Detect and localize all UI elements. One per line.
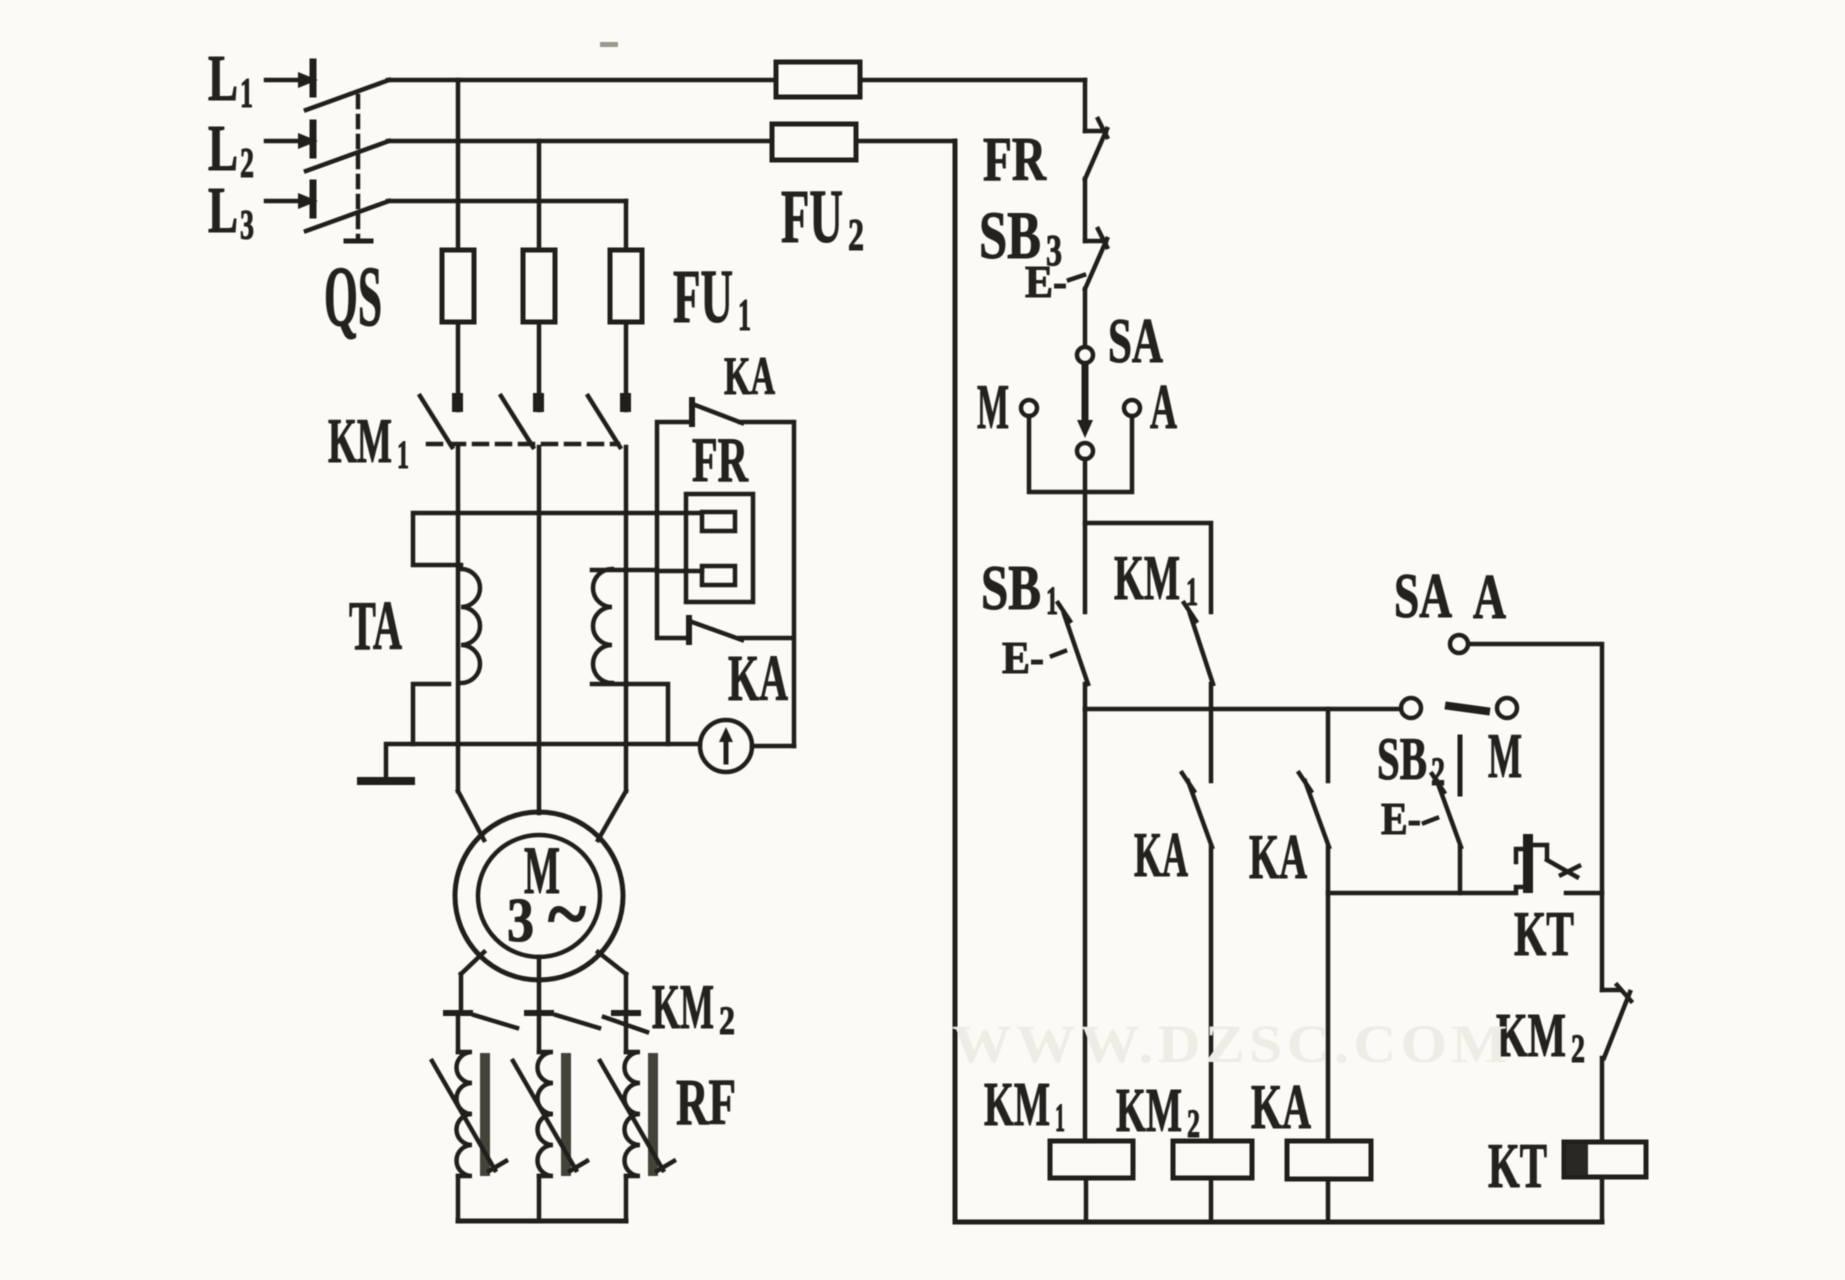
svg-text:2: 2: [1571, 1026, 1585, 1071]
svg-text:TA: TA: [349, 588, 402, 665]
svg-text:KM: KM: [328, 405, 392, 476]
svg-text:FR: FR: [692, 424, 749, 495]
svg-text:SA: SA: [1394, 560, 1452, 631]
svg-text:M: M: [977, 371, 1009, 442]
svg-text:~: ~: [548, 870, 586, 957]
svg-text:KA: KA: [724, 346, 775, 406]
svg-text:SA: SA: [1108, 305, 1163, 376]
svg-text:A: A: [1150, 371, 1177, 442]
svg-text:E-: E-: [1381, 793, 1421, 844]
svg-text:3: 3: [240, 203, 254, 249]
svg-text:SB: SB: [1377, 726, 1427, 792]
svg-text:2: 2: [1431, 749, 1445, 794]
svg-text:KT: KT: [1488, 1130, 1547, 1201]
svg-text:KM: KM: [652, 971, 714, 1042]
svg-text:FU: FU: [781, 175, 843, 259]
svg-text:1: 1: [738, 289, 751, 340]
svg-text:1: 1: [1186, 569, 1198, 614]
svg-text:KA: KA: [1251, 1071, 1311, 1142]
svg-text:A: A: [1473, 561, 1506, 632]
svg-text:SB: SB: [981, 552, 1041, 623]
svg-text:FR: FR: [983, 126, 1047, 194]
svg-text:1: 1: [240, 71, 253, 117]
svg-text:QS: QS: [324, 248, 382, 344]
svg-text:3: 3: [507, 887, 534, 955]
svg-text:KT: KT: [1514, 898, 1574, 969]
svg-text:KM: KM: [1116, 1077, 1182, 1145]
svg-text:1: 1: [397, 432, 409, 477]
svg-text:1: 1: [1046, 578, 1058, 623]
svg-text:L: L: [208, 42, 238, 115]
svg-text:2: 2: [1187, 1101, 1200, 1146]
svg-text:1: 1: [1055, 1095, 1065, 1140]
svg-text:FU: FU: [673, 255, 733, 339]
svg-text:KA: KA: [1249, 821, 1307, 892]
svg-text:KM: KM: [984, 1071, 1050, 1139]
svg-text:L: L: [208, 174, 238, 247]
svg-text:2: 2: [719, 998, 735, 1043]
svg-text:2: 2: [848, 209, 864, 260]
svg-text:2: 2: [240, 141, 254, 187]
svg-text:E-: E-: [1002, 632, 1044, 683]
svg-text:M: M: [1488, 720, 1522, 791]
svg-text:WWW.DZSC.COM: WWW.DZSC.COM: [952, 1014, 1512, 1074]
svg-text:RF: RF: [676, 1066, 736, 1139]
svg-text:KA: KA: [1134, 819, 1188, 890]
svg-text:KM: KM: [1114, 542, 1180, 613]
svg-text:KA: KA: [728, 642, 788, 715]
svg-text:E-: E-: [1025, 256, 1067, 307]
